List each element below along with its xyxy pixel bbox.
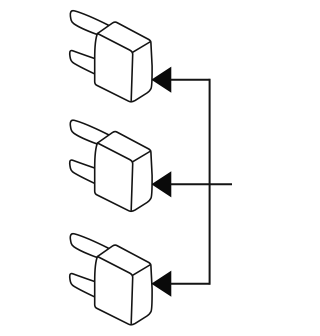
arrow to breaker 2 bbox=[152, 172, 171, 196]
vertical bus wire bbox=[209, 79, 211, 285]
arrow to breaker 1 bbox=[152, 68, 171, 92]
wire from arrow 1 to vertical bus bbox=[171, 79, 210, 81]
wire from arrow 3 to vertical bus bbox=[171, 283, 210, 285]
wire from arrow 2 through bus extending right bbox=[171, 183, 233, 185]
circuit breaker 1 (top blade component) bbox=[70, 11, 152, 102]
circuit breaker 3 (bottom blade component) bbox=[70, 234, 152, 325]
circuit breaker 2 (middle blade component) bbox=[70, 120, 152, 211]
arrow to breaker 3 bbox=[152, 272, 171, 296]
